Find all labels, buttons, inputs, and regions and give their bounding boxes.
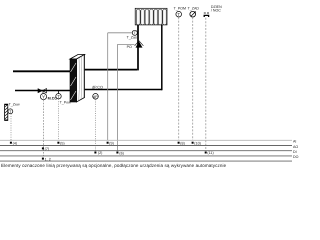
node: T_ZAD terminal on AI rail [192,141,201,145]
radiator [135,8,167,25]
heat exchanger [70,55,85,103]
svg-text:(2): (2) [98,151,103,155]
wire: dP dotted drop [95,99,97,151]
node: T_Zew terminal on AI rail [10,141,17,145]
node: DZIEN/NOC terminal on DI rail [205,151,214,155]
sensor dP.CO [92,85,103,99]
svg-text:T_Zas: T_Zas [127,35,137,39]
sensor T_Pow on return pipe [56,91,71,104]
wire: T_Zas grey run [108,33,133,141]
bus rail 5 [0,160,292,162]
svg-text:(6): (6) [119,151,124,155]
svg-text:(10): (10) [194,141,201,145]
svg-text:(8): (8) [180,141,185,145]
sensor T_Zew (outdoor, on wall) [5,102,20,120]
svg-text:(11): (11) [207,151,213,155]
wire: T_Pow dotted drop [58,99,60,140]
bus rail DO [0,155,299,159]
svg-text:(5): (5) [60,141,65,145]
svg-text:Y: Y [42,95,45,100]
bus rail DI [0,150,297,154]
svg-text:dP.CO: dP.CO [92,85,103,89]
sensor T_ZAD (setpoint dial) [188,6,200,17]
node: T_POM terminal on AI rail [178,141,185,145]
wire: upper supply pipe left segment [13,70,72,72]
node: dP terminal on DI rail [94,151,102,155]
switch DZIEN/NOC [204,5,222,17]
svg-text:Elementy oznaczone linią przer: Elementy oznaczone linią przerywaną są o… [1,163,227,168]
node: T_Zas terminal on AI rail [107,141,114,145]
svg-text:AO: AO [293,145,298,149]
bus rail AO [0,145,298,149]
wire: supply riser to radiator [137,25,139,71]
node: PO terminal on DI rail [116,151,124,155]
wire: T_ZAD dashed drop [192,17,194,140]
svg-text:(9): (9) [109,141,114,145]
svg-text:(4): (4) [13,141,18,145]
node: M.CO tap on AO rail [42,147,49,151]
wire: T_POM dashed drop [178,17,180,140]
svg-text:T: T [177,12,180,17]
wire: T_Zew dashed drop [10,114,12,141]
svg-text:DI: DI [293,150,297,154]
sensor T_Zas on riser [127,30,138,39]
wire: DZIEN/NOC dashed drop [205,18,207,151]
svg-text:T_ZAD: T_ZAD [188,6,200,10]
svg-text:AI: AI [293,140,296,144]
svg-text:T_Zew: T_Zew [9,102,20,106]
wire: PO grey run [118,44,135,150]
svg-text:/ NOC: / NOC [211,9,221,13]
node: T_Pow terminal on AI rail [57,141,64,145]
node: M.CO terminal 1,2 on DO rail [42,157,51,161]
bus rail AI [0,140,296,144]
wire: return riser from radiator [161,25,163,91]
actuator M.CO (Y circle) [40,94,57,101]
svg-text:dP: dP [93,95,98,99]
wire: lower return pipe [15,90,162,91]
svg-text:T: T [57,94,60,99]
svg-text:T_POM: T_POM [174,6,186,10]
mixing valve (3-way) on return pipe [38,89,47,94]
svg-text:PO: PO [127,45,132,49]
svg-text:DO: DO [293,155,299,159]
pump PO on riser [127,41,144,49]
svg-text:T_Pow: T_Pow [60,100,72,104]
wire: upper supply pipe right segment [84,69,137,71]
note text [1,163,227,168]
sensor T_POM (room temp) [174,6,186,17]
wire: M.CO dashed drop [43,100,45,156]
